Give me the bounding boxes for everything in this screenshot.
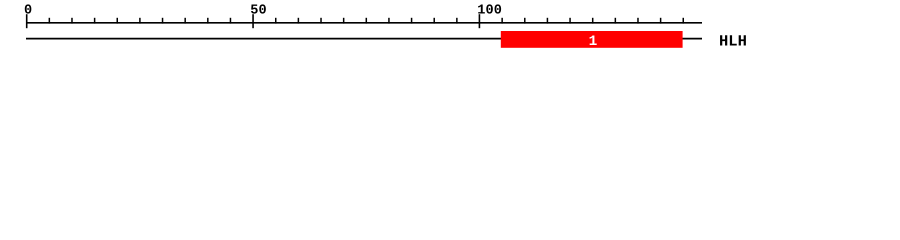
domain box HLH (red) [501,31,683,48]
svg-text:1: 1 [589,34,598,50]
ruler major tick 0 [26,14,28,28]
svg-text:0: 0 [24,3,32,18]
ruler baseline [26,22,702,24]
svg-text:HLH: HLH [719,32,747,50]
svg-text:100: 100 [477,3,502,18]
ruler major tick 100 [478,14,480,28]
sequence line [26,38,702,40]
ruler major tick 50 [252,14,254,28]
svg-text:50: 50 [250,3,267,18]
ruler minor ticks [49,18,683,24]
